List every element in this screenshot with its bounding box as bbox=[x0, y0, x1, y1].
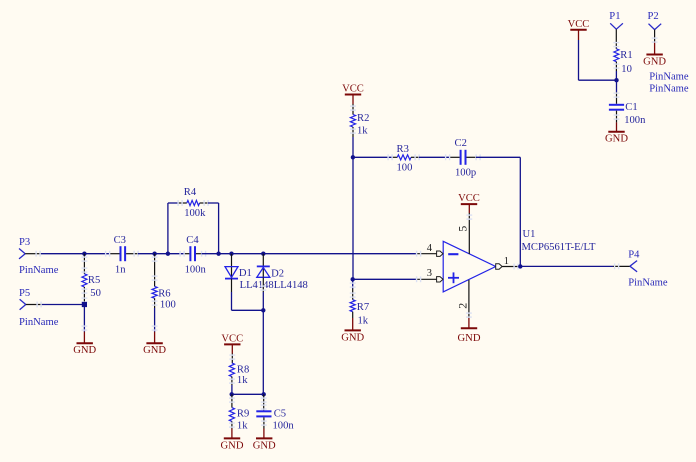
pin R4 right bbox=[200, 200, 209, 206]
pin D2 bottom bbox=[260, 277, 266, 310]
resistor R1 bbox=[614, 49, 633, 62]
svg-text:P3: P3 bbox=[19, 237, 30, 248]
svg-text:100: 100 bbox=[397, 163, 413, 174]
pin C5 top bbox=[261, 394, 267, 410]
svg-text:C2: C2 bbox=[455, 138, 467, 149]
resistor R2 bbox=[350, 113, 369, 127]
wire R2 node down to +in bbox=[352, 157, 354, 279]
port P2 bbox=[648, 11, 662, 29]
svg-text:3: 3 bbox=[427, 268, 432, 279]
wire VCC to node C1/R1 bbox=[579, 40, 617, 80]
pin 2 (V-) bbox=[466, 280, 472, 328]
pin R6 bottom bbox=[152, 298, 158, 331]
value 1k (R7) bbox=[358, 315, 369, 326]
label PinName (P2) bbox=[649, 83, 689, 94]
svg-text:R8: R8 bbox=[237, 364, 249, 375]
svg-text:GND: GND bbox=[143, 345, 166, 356]
capacitor C5 bbox=[256, 409, 286, 420]
resistor R7 bbox=[350, 300, 369, 314]
wire D1 to D2 bottom bbox=[232, 292, 264, 310]
pin 3 (non-inverting input) bbox=[416, 276, 443, 282]
node R2/R3 junction bbox=[351, 155, 355, 159]
value 1k (R8) bbox=[237, 375, 248, 386]
pin 1 (output) bbox=[496, 264, 521, 270]
resistor R9 bbox=[229, 408, 249, 422]
svg-text:GND: GND bbox=[605, 134, 628, 145]
svg-text:PinName: PinName bbox=[649, 83, 689, 94]
value 50 (R5) bbox=[90, 288, 101, 299]
svg-text:50: 50 bbox=[90, 288, 101, 299]
pin number 2 bbox=[455, 303, 469, 309]
port P5 bbox=[19, 288, 30, 310]
value 100k (R4) bbox=[184, 208, 206, 219]
wire R8 node to C5 node bbox=[232, 393, 264, 395]
pin 5 (V+) bbox=[466, 204, 472, 254]
svg-text:R2: R2 bbox=[357, 113, 369, 124]
pin R9 top bbox=[229, 394, 235, 407]
pin number 1 bbox=[504, 256, 509, 267]
node P5/R5 junction bbox=[82, 302, 87, 307]
svg-text:R4: R4 bbox=[184, 187, 197, 198]
value 100n (C5) bbox=[273, 420, 295, 431]
value 10 (R1) bbox=[621, 64, 632, 75]
pin C4 right bbox=[196, 251, 219, 257]
diode D1 bbox=[225, 267, 252, 280]
wire R6 to GND bbox=[152, 325, 158, 343]
svg-text:MCP6561T-E/LT: MCP6561T-E/LT bbox=[522, 242, 597, 253]
value 100 (R6) bbox=[160, 300, 176, 311]
power VCC flag (R2) bbox=[342, 84, 364, 105]
power GND flag (U1) bbox=[458, 328, 481, 344]
svg-text:PinName: PinName bbox=[19, 265, 59, 276]
label PinName (P5) bbox=[19, 317, 59, 328]
pin R6 top bbox=[152, 254, 158, 287]
pin R2 top bbox=[350, 104, 356, 115]
pin P4 bbox=[613, 264, 630, 270]
svg-text:1k: 1k bbox=[358, 315, 369, 326]
pin 4 (inverting input) bbox=[416, 251, 443, 257]
op-amp plus sign bbox=[448, 272, 459, 283]
svg-text:GND: GND bbox=[458, 333, 481, 344]
svg-text:1n: 1n bbox=[115, 265, 126, 276]
svg-text:PinName: PinName bbox=[19, 317, 59, 328]
label PinName (P3) bbox=[19, 265, 59, 276]
pin C5 bottom bbox=[261, 417, 267, 438]
pin P5 bbox=[26, 302, 42, 308]
svg-text:R9: R9 bbox=[237, 409, 249, 420]
svg-text:GND: GND bbox=[73, 345, 96, 356]
wire R4 left leg bbox=[168, 203, 178, 254]
pin C3 right bbox=[126, 251, 155, 257]
svg-text:GND: GND bbox=[643, 57, 666, 68]
pin R7 bottom bbox=[352, 312, 354, 331]
pin C2 left bbox=[445, 154, 460, 160]
op-amp minus sign bbox=[448, 253, 458, 255]
svg-text:1k: 1k bbox=[357, 125, 368, 136]
svg-text:1k: 1k bbox=[237, 420, 248, 431]
label PinName (P1) bbox=[649, 71, 689, 82]
pin R8 top bbox=[229, 354, 235, 364]
ground GND (P2) bbox=[643, 55, 666, 68]
svg-text:100n: 100n bbox=[185, 265, 207, 276]
node output junction bbox=[518, 264, 522, 268]
svg-text:R1: R1 bbox=[620, 50, 632, 61]
pin R5 top bbox=[82, 254, 88, 274]
port P1 bbox=[609, 11, 623, 29]
ground GND (R6) bbox=[143, 343, 166, 356]
pin number 3 bbox=[427, 268, 432, 279]
value 100p (C2) bbox=[455, 167, 476, 178]
capacitor C1 bbox=[609, 102, 638, 113]
svg-text:100p: 100p bbox=[455, 167, 476, 178]
pin D1 bottom bbox=[231, 279, 233, 311]
svg-text:R3: R3 bbox=[397, 144, 409, 155]
ground GND (R9) bbox=[221, 438, 244, 451]
svg-text:R7: R7 bbox=[357, 302, 369, 313]
svg-text:1k: 1k bbox=[237, 375, 248, 386]
wire R2 node to R3 bbox=[353, 156, 392, 158]
svg-text:LL4148LL4148: LL4148LL4148 bbox=[240, 280, 308, 291]
wire to C4 bbox=[155, 253, 184, 255]
port P4 bbox=[628, 249, 640, 271]
op-amp U1 body bbox=[443, 241, 496, 292]
wire output to P4 bbox=[520, 265, 613, 267]
svg-text:100: 100 bbox=[160, 300, 176, 311]
power VCC flag (R8) bbox=[221, 333, 243, 353]
resistor R3 bbox=[397, 144, 412, 160]
power VCC flag (top right) bbox=[568, 19, 590, 40]
svg-text:VCC: VCC bbox=[458, 193, 480, 204]
resistor R4 bbox=[184, 187, 200, 206]
pin C1 bottom bbox=[614, 111, 620, 132]
node R4 left junction bbox=[166, 252, 170, 256]
svg-text:4: 4 bbox=[427, 243, 433, 254]
svg-text:2: 2 bbox=[455, 303, 469, 309]
capacitor C2 bbox=[455, 138, 467, 165]
svg-text:D2: D2 bbox=[271, 268, 284, 279]
wire C4 to opamp -in bbox=[219, 253, 416, 255]
svg-text:GND: GND bbox=[253, 440, 276, 451]
wire C2 to output node bbox=[519, 157, 521, 266]
value 100n (C1) bbox=[624, 115, 646, 126]
pin R8 bottom bbox=[229, 377, 235, 395]
pin number 4 bbox=[427, 243, 433, 254]
wire +in to opamp bbox=[353, 278, 416, 280]
ground GND (R7) bbox=[341, 330, 364, 343]
node D1 junction bbox=[229, 252, 233, 256]
pin number 5 bbox=[455, 226, 469, 232]
resistor R5 bbox=[82, 274, 100, 287]
svg-text:VCC: VCC bbox=[568, 19, 590, 30]
svg-text:P1: P1 bbox=[609, 11, 620, 22]
svg-text:100n: 100n bbox=[273, 420, 295, 431]
pin R4 left bbox=[177, 200, 186, 206]
resistor R8 bbox=[229, 363, 249, 377]
pin R3 right bbox=[411, 154, 450, 160]
node P3/R5 junction bbox=[82, 252, 86, 256]
svg-text:GND: GND bbox=[221, 440, 244, 451]
node C5 junction bbox=[262, 392, 266, 396]
designator U1 bbox=[523, 229, 536, 240]
node R4 right junction bbox=[216, 252, 220, 256]
svg-text:P4: P4 bbox=[628, 249, 640, 260]
wire R4 right leg bbox=[208, 203, 219, 254]
pin D1 top bbox=[231, 254, 233, 278]
node D loop junction bbox=[261, 308, 265, 312]
capacitor C3 bbox=[114, 235, 126, 261]
node D2 junction bbox=[261, 252, 265, 256]
ground GND (P5/R5) bbox=[73, 343, 96, 356]
pin P3 bbox=[25, 251, 41, 257]
ground GND (C5) bbox=[253, 438, 276, 451]
port P3 bbox=[19, 237, 30, 259]
pin R1 bottom bbox=[614, 62, 620, 80]
svg-text:C3: C3 bbox=[114, 235, 126, 246]
power VCC flag (U1) bbox=[458, 193, 480, 204]
wire node to C1 bbox=[614, 80, 620, 104]
value MCP6561T-E/LT bbox=[522, 242, 597, 253]
pin R7 top bbox=[350, 279, 356, 299]
node R1/C1 junction bbox=[614, 78, 618, 82]
wire P5 to R5 bbox=[42, 304, 84, 306]
value 1k (R9) bbox=[237, 420, 248, 431]
svg-text:100n: 100n bbox=[624, 115, 646, 126]
wire D2 node down to R8/R9 node bbox=[262, 310, 264, 394]
svg-text:1: 1 bbox=[504, 256, 509, 267]
node +in/R7 junction bbox=[351, 277, 355, 281]
pin R9 bottom bbox=[229, 421, 235, 438]
wire P3 to C3 bbox=[41, 253, 110, 255]
pin D2 top bbox=[262, 254, 264, 277]
label PinName (P4) bbox=[628, 277, 668, 288]
pin C4 left bbox=[179, 251, 189, 257]
resistor R6 bbox=[152, 286, 171, 299]
pin C2 right bbox=[467, 154, 521, 160]
pin P2 to GND bbox=[652, 30, 658, 55]
value 100n (C4) bbox=[185, 265, 207, 276]
value 1n (C3) bbox=[115, 265, 126, 276]
value 1k (R2) bbox=[357, 125, 368, 136]
pin R3 left bbox=[387, 154, 397, 160]
svg-text:PinName: PinName bbox=[628, 277, 668, 288]
pin R2 bottom bbox=[350, 127, 356, 157]
wire R5 node to GND bbox=[82, 305, 88, 344]
svg-text:P5: P5 bbox=[19, 288, 30, 299]
svg-text:VCC: VCC bbox=[221, 333, 243, 344]
node R8/R9 junction bbox=[230, 392, 234, 396]
svg-text:GND: GND bbox=[341, 332, 364, 343]
pin C3 left bbox=[105, 251, 120, 257]
svg-text:PinName: PinName bbox=[649, 71, 689, 82]
value LL4148 LL4148 (D1 D2) bbox=[240, 280, 308, 291]
svg-text:C5: C5 bbox=[274, 409, 286, 420]
capacitor C4 bbox=[186, 235, 199, 261]
svg-text:5: 5 bbox=[455, 226, 469, 232]
node C3/R6 junction bbox=[152, 252, 156, 256]
ground GND (C1) bbox=[605, 132, 628, 145]
pin P1 to R1 bbox=[613, 29, 619, 49]
pin R5 bottom bbox=[82, 287, 88, 305]
svg-text:P2: P2 bbox=[648, 11, 659, 22]
svg-text:C4: C4 bbox=[186, 235, 199, 246]
svg-text:D1: D1 bbox=[239, 268, 252, 279]
svg-text:R6: R6 bbox=[158, 289, 170, 300]
svg-text:R5: R5 bbox=[88, 275, 100, 286]
svg-text:10: 10 bbox=[621, 64, 632, 75]
value 100 (R3) bbox=[397, 163, 413, 174]
svg-text:100k: 100k bbox=[184, 208, 206, 219]
svg-text:U1: U1 bbox=[523, 229, 536, 240]
diode D2 bbox=[257, 266, 284, 279]
svg-text:VCC: VCC bbox=[342, 84, 364, 95]
svg-text:C1: C1 bbox=[625, 102, 637, 113]
